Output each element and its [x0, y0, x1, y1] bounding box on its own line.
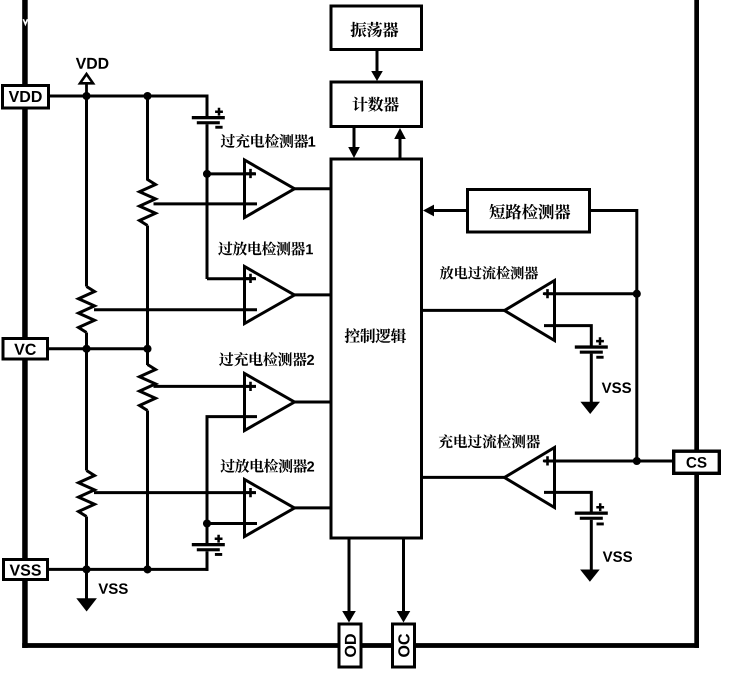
- label VSS right bottom: [603, 551, 613, 561]
- terminal VC box and rail: [49, 347, 148, 350]
- wire: battery B1 negative to op-amp U1 + and U2 +: [206, 124, 209, 279]
- node: VC-R2 junction: [82, 345, 90, 353]
- label VDD above power symbol: [76, 58, 86, 69]
- wire: U1 + input stub: [207, 172, 256, 175]
- battery B2 (reference source at VSS): [206, 524, 209, 544]
- wire: resistor chain B vertical top (VDD to R2): [85, 96, 88, 287]
- label 过放电检测器2: [221, 459, 235, 473]
- node: VSS-R4 junction: [82, 565, 90, 573]
- ground symbol right bottom: [580, 570, 600, 582]
- arrow: control logic to counter: [399, 138, 402, 159]
- wire: U5 output to control logic: [423, 309, 505, 312]
- wire: R1 bottom to VC rail: [146, 226, 149, 349]
- wire: right CS bus (thick vertical): [694, 0, 699, 648]
- wire: bottom bus left segment: [22, 643, 339, 648]
- node: CS junction: [633, 457, 641, 465]
- label OC rotated: [398, 634, 409, 657]
- op-amp U1 (overcharge detector 1): [245, 160, 295, 218]
- label OD rotated: [345, 634, 356, 657]
- node: VDD-R1 junction: [143, 92, 151, 100]
- plus mark U1: [246, 169, 255, 178]
- label VSS near ground: [98, 583, 108, 593]
- power symbol VDD (arrow up): [80, 74, 93, 83]
- op-amp U6 (charge overcurrent detector): [505, 448, 555, 508]
- label VDD in terminal box: [9, 91, 19, 102]
- resistor R3: [140, 365, 156, 411]
- arrow: short detector to control logic: [433, 209, 466, 212]
- label VC in terminal box: [14, 344, 24, 355]
- wire: U6 + input from CS terminal: [544, 460, 672, 463]
- decorative notch on left bus: [23, 19, 27, 24]
- resistor R2: [79, 287, 95, 333]
- label 振荡器: [351, 22, 367, 37]
- block counter 计数器: [331, 82, 422, 127]
- wire: battery B2 to VSS rail: [206, 551, 209, 571]
- wire: R2 bottom to VC rail: [85, 333, 88, 349]
- wire: U6 output to control logic: [423, 476, 505, 479]
- block oscillator 振荡器: [331, 6, 422, 50]
- resistor R1: [140, 180, 156, 226]
- op-amp U5 (discharge overcurrent detector): [505, 281, 555, 341]
- arrow: control logic to OC: [402, 540, 405, 613]
- terminal OC: [393, 624, 415, 667]
- node: battery B1 / U1 + junction: [203, 170, 211, 178]
- battery B4 (reference source): [575, 512, 608, 515]
- node: VDD-R2 junction: [82, 92, 90, 100]
- wire: bottom bus right segment: [415, 643, 700, 648]
- wire: U5 - input to battery B3: [544, 326, 591, 346]
- label VSS in terminal box: [10, 565, 20, 576]
- node: VSS-R3 junction: [143, 565, 151, 573]
- wire: R1 tap to U1 - input: [154, 202, 258, 205]
- wire: U3 - input from battery B2 node: [207, 417, 257, 524]
- plus mark U4: [246, 488, 255, 497]
- label 过充电检测器2: [219, 352, 233, 366]
- wire: battery B3 to ground: [590, 354, 593, 403]
- ground symbol right top: [580, 402, 600, 414]
- arrow: counter to control logic: [353, 128, 356, 149]
- wire: R2 tap to U2 - input: [94, 308, 257, 311]
- arrow: oscillator to counter: [376, 51, 379, 72]
- label 计数器: [353, 97, 368, 112]
- wire: R3 tap to U3 + input: [154, 385, 257, 388]
- wire: VDD rail horizontal with corner down to battery B1: [49, 96, 207, 117]
- wire: VSS rail horizontal: [49, 568, 209, 571]
- wire: U4 - input stub: [207, 522, 257, 525]
- wire: R4 bottom to VSS rail: [85, 517, 88, 570]
- wire: R4 tap to U4 + input: [94, 491, 256, 494]
- wire: U4 output to control logic: [294, 506, 331, 509]
- wire: resistor chain A vertical top (VDD to R1): [146, 96, 149, 181]
- plus mark U3: [246, 382, 255, 391]
- wire: U2 output to control logic: [294, 293, 331, 296]
- wire: short detector to CS rail: [591, 211, 637, 462]
- wire: left VDD bus (thick vertical): [22, 0, 28, 648]
- op-amp U3 (overcharge detector 2): [245, 374, 295, 431]
- op-amp U2 (overdischarge detector 1): [245, 267, 295, 324]
- wire: R3 bottom to VSS rail: [146, 411, 149, 570]
- wire: chain B VC to R4: [85, 349, 88, 471]
- node: CS rail / U5 + junction: [633, 290, 641, 298]
- label 过放电检测器1: [218, 242, 232, 256]
- arrow: control logic to OD: [348, 540, 351, 613]
- resistor R4: [79, 471, 95, 517]
- label 控制逻辑: [345, 328, 360, 343]
- terminal CS: [674, 451, 720, 473]
- plus mark U2: [246, 274, 255, 283]
- wire: U5 + input from CS node: [544, 292, 637, 295]
- wire: battery B4 to ground: [590, 520, 593, 571]
- battery B3 (reference source): [575, 345, 608, 348]
- label VSS right top: [602, 383, 612, 393]
- terminal VSS: [4, 560, 48, 580]
- block control logic 控制逻辑: [331, 159, 422, 538]
- label 放电过流检测器: [440, 266, 454, 279]
- label 充电过流检测器: [439, 434, 453, 448]
- label 过充电检测器1: [221, 134, 235, 148]
- label CS in terminal box: [687, 457, 697, 468]
- ground symbol left: [85, 569, 88, 599]
- label 短路检测器: [489, 204, 505, 219]
- node: VC-R1R3 junction: [143, 345, 151, 353]
- op-amp U4 (overdischarge detector 2): [245, 480, 295, 537]
- wire: U1 output to control logic: [294, 187, 331, 190]
- wire: bottom bus middle segment (OD to OC): [361, 643, 393, 648]
- wire: U3 output to control logic: [294, 401, 331, 404]
- terminal OD: [339, 624, 361, 667]
- plus mark U6: [543, 456, 552, 465]
- plus mark U5: [543, 289, 552, 298]
- terminal VC: [3, 339, 48, 360]
- battery B1 (reference source at VDD): [192, 116, 225, 119]
- wire: U6 - input to battery B4: [544, 492, 591, 513]
- block short-circuit detector 短路检测器: [468, 190, 590, 233]
- terminal VDD box: [3, 86, 49, 109]
- wire: chain A VC to R3: [146, 349, 149, 365]
- node: battery B2 / U4 - junction: [203, 519, 211, 527]
